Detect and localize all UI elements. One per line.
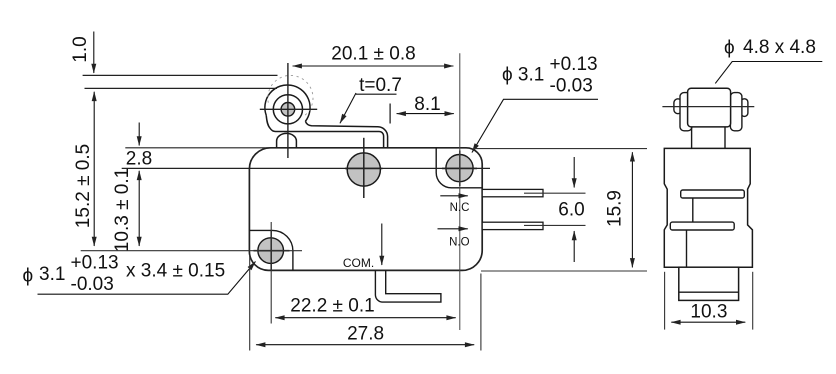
terminal N.C extension line [524, 192, 586, 194]
svg-text:10.3: 10.3 [690, 302, 727, 323]
svg-text:1.0: 1.0 [70, 36, 91, 62]
top-right hole cavity corner [436, 148, 482, 188]
svg-text:2.8: 2.8 [126, 149, 152, 170]
svg-text:+0.13: +0.13 [550, 54, 598, 75]
terminal N.O extension line [524, 224, 586, 226]
lever arm bottom edge / bracket [266, 115, 383, 148]
svg-text:N.O: N.O [449, 236, 470, 248]
svg-text:-0.03: -0.03 [71, 274, 114, 295]
svg-text:4.8 x 4.8: 4.8 x 4.8 [743, 37, 816, 58]
svg-text:t=0.7: t=0.7 [359, 75, 402, 96]
dimension 10.3 line [138, 171, 140, 246]
N.O indicator arrow [438, 228, 468, 230]
dimension 27.8 line [256, 344, 474, 346]
svg-text:10.3 ± 0.1: 10.3 ± 0.1 [112, 168, 133, 252]
dia 4.8 leader [715, 62, 822, 84]
side view roller right axle bump [741, 99, 748, 117]
roller middle circle [273, 95, 302, 124]
top-right hole circle [446, 155, 473, 182]
svg-text:6.0: 6.0 [558, 200, 584, 221]
side view roller left axle bump [674, 99, 682, 114]
side view roller centerline [662, 106, 754, 108]
COM indicator arrow [381, 224, 383, 266]
dimension 15.2 line [93, 92, 95, 246]
roller outer circle [265, 85, 310, 121]
dia 3.1 bottom leader [38, 262, 256, 295]
side view upper flange bar [681, 190, 745, 198]
dimension 1.0 arrow line [93, 32, 95, 74]
N.C terminal [482, 189, 543, 196]
svg-text:22.2 ± 0.1: 22.2 ± 0.1 [290, 296, 374, 317]
side view roller wheel [688, 88, 731, 127]
dimension 20.1 line [293, 65, 454, 67]
side view lower flange bar [670, 222, 734, 230]
side view bottom plug inner line [679, 291, 739, 293]
side view seam line 2 [686, 230, 688, 267]
dimension 2.8 top extension line [125, 147, 272, 149]
dimension 1.0 extension line A [83, 74, 278, 76]
bottom-left hole crosshair vertical segment [270, 230, 272, 271]
dimension 15.9 bottom extension line [481, 270, 647, 272]
center hole vertical centerline [363, 138, 365, 198]
dimension 22.2 line [275, 317, 455, 319]
svg-text:8.1: 8.1 [414, 94, 440, 115]
dimension 10.3 side right extension line [752, 272, 754, 330]
switch body outline [249, 148, 482, 271]
svg-text:15.2 ± 0.5: 15.2 ± 0.5 [73, 144, 94, 228]
bottom-left hole cavity corner [250, 230, 293, 270]
t=0.7 underline [356, 93, 397, 95]
dimension 8.1 line [397, 113, 454, 115]
svg-text:15.9: 15.9 [605, 190, 626, 227]
dimension 6.0 upper arrow [573, 157, 575, 188]
dia 3.1 top leader [472, 99, 598, 152]
COM terminal [375, 270, 441, 302]
svg-text:3.1: 3.1 [39, 264, 65, 285]
dimension 10.3 side left extension line [664, 272, 666, 330]
N.C indicator arrow [440, 195, 468, 197]
dimension 27.8 right extension line [480, 274, 482, 351]
side view bottom plug [679, 267, 739, 300]
right extension line x=459.8 [459, 53, 461, 330]
svg-text:-0.03: -0.03 [550, 76, 593, 97]
lever tip tick for 8.1 [389, 104, 391, 124]
side view stem left edge [691, 127, 693, 148]
svg-text:x 3.4 ± 0.15: x 3.4 ± 0.15 [126, 261, 225, 282]
side view stem right edge [724, 127, 726, 148]
svg-text:ϕ 3.1: ϕ 3.1 [502, 65, 544, 86]
roller crosshair horizontal [260, 108, 317, 110]
svg-text:ϕ: ϕ [724, 38, 735, 59]
top-right hole crosshair horizontal segment [442, 167, 477, 169]
side view roller right cap [730, 93, 742, 131]
side view body outline [664, 148, 752, 267]
svg-text:27.8: 27.8 [347, 323, 384, 344]
dimension 27.8 left extension line [249, 255, 251, 351]
svg-text:+0.13: +0.13 [71, 253, 119, 274]
dimension 15.9 top extension line [474, 148, 648, 150]
center hole circle [347, 153, 380, 186]
side view seam line 1 [692, 198, 694, 222]
roller free position dashed circle [268, 75, 313, 116]
top-right hole crosshair vertical segment [459, 151, 461, 187]
dimension 1.0 extension line B [85, 87, 278, 89]
svg-text:20.1 ± 0.8: 20.1 ± 0.8 [331, 44, 415, 65]
dimension 15.9 line [631, 152, 633, 267]
body seam line / 2.8 extension line [122, 167, 490, 169]
t=0.7 leader [340, 93, 356, 123]
center hole crosshair horizontal segment [345, 167, 383, 169]
lever arm top edge [305, 121, 387, 148]
bottom-left hole circle [258, 238, 284, 264]
dimension 10.3 side line [671, 321, 745, 323]
dimension 6.0 lower arrow [573, 231, 575, 262]
dimension 2.8 arrow line [138, 123, 140, 146]
N.O terminal [482, 222, 543, 229]
dimension 15.2 bottom extension line [81, 250, 302, 252]
bottom-left hole crosshair horizontal segment [254, 250, 290, 252]
svg-text:ϕ: ϕ [23, 266, 34, 287]
bottom-left hole centerline vertical / 22.2 extension [270, 222, 272, 324]
roller crosshair vertical [287, 63, 289, 158]
side view roller left cap [680, 93, 692, 131]
roller pivot [281, 103, 295, 117]
svg-text:COM.: COM. [343, 256, 374, 270]
plunger bump [277, 133, 297, 147]
svg-text:N.C: N.C [450, 202, 470, 214]
